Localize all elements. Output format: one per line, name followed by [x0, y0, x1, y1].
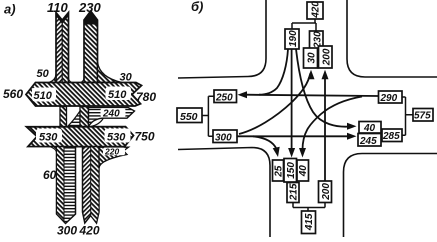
box 575	[413, 109, 433, 122]
svg-text:110: 110	[47, 0, 68, 15]
flow 300 right turn to south (25)	[253, 136, 277, 149]
band 300/60 (south, split hatch, tip bottom)	[57, 147, 76, 224]
svg-text:25: 25	[273, 165, 284, 178]
svg-text:40: 40	[363, 123, 376, 134]
svg-text:560: 560	[3, 87, 23, 101]
box 290	[379, 91, 403, 104]
svg-text:415: 415	[304, 213, 315, 231]
box 215	[287, 183, 299, 203]
box 40 south	[297, 160, 309, 181]
band 110 (north, notched tail top)	[56, 13, 69, 83]
box 150	[284, 159, 297, 183]
flow 290 to 250 (east-west through)	[245, 95, 379, 96]
svg-text:420: 420	[311, 1, 322, 19]
box 285	[382, 129, 402, 142]
flow 200 straight north	[324, 75, 326, 181]
box 420	[307, 1, 323, 19]
svg-text:250: 250	[215, 93, 233, 104]
fillet 30 (right of band 230)	[98, 62, 123, 83]
box 200 top	[319, 46, 333, 68]
fillet between bands	[69, 78, 73, 83]
box 415	[302, 211, 316, 234]
svg-text:а): а)	[4, 2, 16, 17]
svg-text:550: 550	[180, 111, 198, 123]
bracket 415-215/200	[293, 203, 325, 212]
svg-text:300: 300	[215, 133, 232, 144]
flow 300 left turn to north (30)	[239, 73, 311, 134]
svg-text:200: 200	[321, 183, 332, 201]
label 510 left	[32, 88, 56, 103]
band 240 (east, thin, horizontal hatch)	[89, 107, 135, 126]
svg-text:245: 245	[359, 136, 377, 147]
fillet turn (horizontal hatch)	[68, 111, 81, 127]
box 200 south	[319, 181, 332, 203]
band west-east upper (510/510, tip left, tail right)	[26, 83, 142, 107]
svg-text:780: 780	[136, 90, 156, 104]
svg-text:510: 510	[34, 90, 53, 102]
box 40 east	[359, 122, 381, 135]
flow 300 straight east (245)	[237, 135, 349, 137]
fillet left of band 300	[50, 147, 57, 152]
band west-east lower (530/530, tail left, tip right)	[27, 127, 134, 147]
svg-text:530: 530	[107, 132, 126, 144]
svg-text:215: 215	[288, 183, 299, 201]
label 530 left	[36, 129, 62, 144]
box 30	[304, 48, 318, 68]
svg-text:285: 285	[382, 131, 400, 142]
curb top-left	[178, 0, 266, 78]
svg-text:290: 290	[380, 93, 398, 104]
svg-text:30: 30	[306, 52, 317, 64]
band 420 (south, herringbone, fishtail bottom)	[83, 147, 100, 223]
svg-text:190: 190	[288, 30, 299, 47]
svg-text:50: 50	[37, 68, 50, 80]
box 230	[310, 31, 324, 50]
flow 190 straight south	[291, 49, 293, 150]
fillet 50 (left of band 110)	[49, 75, 56, 83]
box 25	[273, 160, 285, 181]
mid strip right (band 420 through)	[80, 107, 89, 127]
box 550	[177, 108, 202, 123]
label 510 right	[106, 87, 132, 102]
curb bottom-left	[178, 148, 270, 238]
box 300	[213, 130, 237, 144]
band 230 (north, solid arrow tip)	[84, 11, 98, 83]
label 530 right	[105, 129, 131, 144]
svg-text:300: 300	[57, 224, 77, 238]
flow 190 right turn to west	[259, 49, 288, 95]
box 250	[214, 90, 237, 104]
svg-text:150: 150	[286, 162, 297, 179]
svg-text:530: 530	[39, 132, 58, 144]
svg-text:б): б)	[191, 0, 203, 14]
svg-text:240: 240	[102, 109, 120, 120]
svg-text:40: 40	[298, 165, 309, 178]
svg-text:750: 750	[135, 130, 155, 144]
flow 290 left turn to south (40)	[303, 97, 363, 151]
mid strip left (band 110 through)	[60, 107, 67, 127]
curb bottom-right	[344, 154, 437, 238]
box 190	[285, 29, 299, 49]
svg-text:60: 60	[43, 168, 57, 182]
svg-text:575: 575	[414, 111, 431, 122]
svg-text:220: 220	[104, 147, 119, 157]
curb top-right	[347, 0, 437, 77]
bracket 420-190/230	[292, 19, 316, 31]
band 220 (turning, short east)	[99, 147, 129, 168]
svg-text:420: 420	[79, 224, 100, 238]
flow 190 left turn to east (40)	[296, 49, 350, 127]
svg-text:510: 510	[108, 89, 127, 101]
bracket 550-250/300	[202, 96, 214, 136]
svg-text:200: 200	[321, 48, 332, 66]
box 245	[358, 134, 381, 148]
bracket 575-290/285	[402, 97, 413, 135]
